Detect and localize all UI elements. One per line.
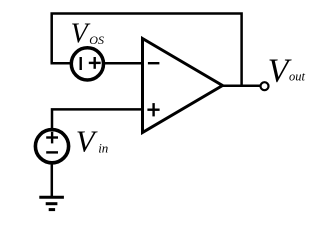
V_in minus terminal	[46, 151, 58, 153]
wire: V_OS left lead	[51, 62, 73, 65]
svg-text:OS: OS	[89, 33, 104, 47]
op-amp U1 triangle	[143, 39, 223, 133]
V_in plus terminal	[46, 136, 58, 138]
svg-text:V: V	[76, 123, 98, 158]
op-amp minus input label	[148, 62, 160, 64]
wire: V_OS to op-amp inverting input	[103, 62, 142, 65]
voltage source V_in	[35, 130, 68, 163]
wire: op-amp output	[221, 84, 260, 87]
svg-text:out: out	[289, 69, 306, 83]
ground	[39, 196, 64, 199]
voltage source V_OS	[71, 48, 103, 80]
V_OS plus terminal	[89, 62, 101, 64]
node: V_out open terminal	[261, 82, 269, 90]
svg-text:V: V	[71, 19, 91, 50]
wire: feedback top horizontal	[52, 14, 242, 86]
wire: V_in to op-amp non-inverting input	[52, 109, 142, 129]
V_OS minus terminal (vertical bar)	[79, 57, 81, 70]
op-amp plus input label	[147, 108, 159, 110]
svg-text:in: in	[98, 140, 108, 155]
wire: V_in to ground	[51, 163, 54, 198]
